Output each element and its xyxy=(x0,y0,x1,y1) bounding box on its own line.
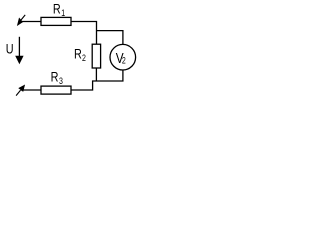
wire branch node to voltmeter top xyxy=(97,31,123,45)
label R2 xyxy=(74,46,86,63)
label R1 xyxy=(53,1,66,18)
terminal (top-left input) xyxy=(18,15,26,25)
resistor R2 (vertical) xyxy=(92,44,100,68)
voltmeter V2 xyxy=(110,44,136,70)
wire voltmeter bottom, bottom rail, drop to R3 row xyxy=(71,70,123,90)
svg-text:U: U xyxy=(6,41,14,57)
svg-text:2: 2 xyxy=(82,53,86,63)
voltage arrow U xyxy=(18,37,20,57)
resistor R3 xyxy=(41,86,71,94)
terminal (bottom-left input) xyxy=(16,86,24,96)
label U xyxy=(6,41,14,57)
wire R1 to node, down to R2 top xyxy=(71,22,97,45)
wire terminal to R1 xyxy=(21,21,41,23)
wire R2 bottom to bottom rail xyxy=(95,68,97,81)
svg-text:3: 3 xyxy=(59,76,63,86)
svg-text:R: R xyxy=(74,46,82,62)
svg-text:R: R xyxy=(51,69,59,85)
svg-text:R: R xyxy=(53,1,61,17)
svg-text:2: 2 xyxy=(122,55,126,65)
resistor R1 xyxy=(41,17,71,25)
label V2 xyxy=(116,50,127,67)
background xyxy=(0,0,145,130)
wire R3 to bottom terminal xyxy=(21,89,41,91)
label R3 xyxy=(51,69,64,86)
svg-text:1: 1 xyxy=(61,8,65,18)
